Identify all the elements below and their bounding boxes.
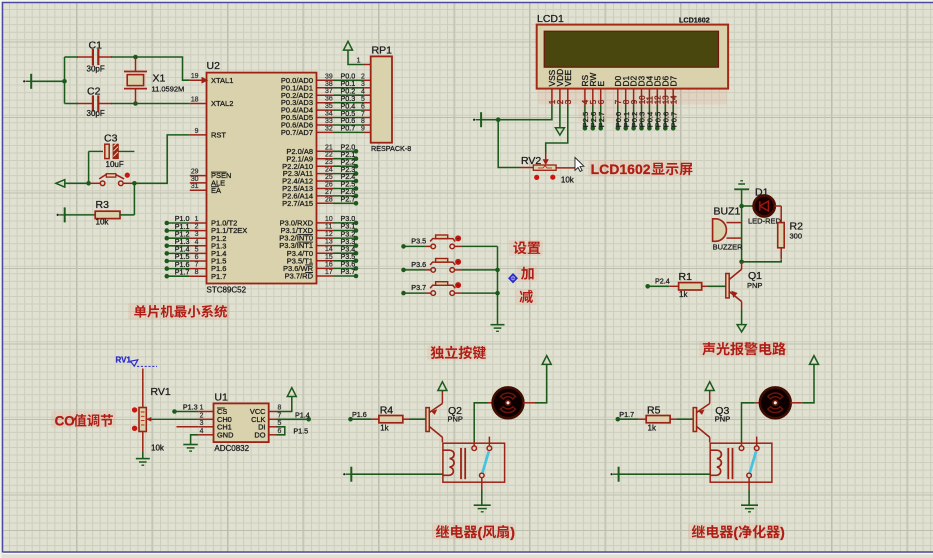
svg-text:RST: RST: [211, 131, 226, 140]
svg-text:4: 4: [195, 239, 199, 246]
svg-text:1: 1: [200, 405, 204, 412]
svg-text:7: 7: [195, 262, 199, 269]
svg-text:21: 21: [325, 144, 333, 151]
svg-text:P1.7: P1.7: [175, 267, 190, 276]
svg-text:2: 2: [200, 412, 204, 419]
svg-text:LCD1602: LCD1602: [591, 161, 651, 177]
svg-text:32: 32: [325, 125, 333, 132]
svg-text:30pF: 30pF: [87, 65, 105, 74]
svg-text:14: 14: [325, 246, 333, 253]
svg-text:6: 6: [195, 254, 199, 261]
svg-text:1k: 1k: [648, 424, 657, 433]
svg-text:LCD1: LCD1: [537, 13, 564, 25]
svg-text:P3.5: P3.5: [411, 236, 426, 245]
svg-text:3: 3: [361, 81, 365, 88]
svg-text:11.0592M: 11.0592M: [152, 85, 185, 94]
svg-text:): ): [510, 524, 515, 540]
svg-text:8: 8: [361, 118, 365, 125]
svg-text:3: 3: [200, 420, 204, 427]
svg-text:16: 16: [325, 261, 333, 268]
svg-text:28: 28: [325, 196, 333, 203]
svg-text:LCD1602: LCD1602: [679, 16, 710, 25]
svg-text:P1.7: P1.7: [619, 410, 634, 419]
svg-text:17: 17: [325, 269, 333, 276]
svg-text:39: 39: [325, 73, 333, 80]
svg-text:PNP: PNP: [448, 414, 463, 423]
svg-text:30pF: 30pF: [87, 109, 105, 118]
svg-text:BUZ1: BUZ1: [714, 206, 741, 218]
svg-text:3: 3: [195, 231, 199, 238]
svg-text:DO: DO: [254, 430, 265, 439]
svg-text:36: 36: [325, 96, 333, 103]
svg-text:P0.7/AD7: P0.7/AD7: [281, 128, 313, 137]
svg-text:X1: X1: [153, 73, 166, 85]
svg-text:P2.7: P2.7: [341, 195, 356, 204]
svg-text:13: 13: [325, 239, 333, 246]
svg-text:ADC0832: ADC0832: [214, 444, 249, 453]
svg-text:37: 37: [325, 88, 333, 95]
svg-text:P2.4: P2.4: [655, 277, 670, 286]
svg-text:9: 9: [361, 126, 365, 133]
svg-text:14: 14: [670, 95, 679, 104]
svg-text:7: 7: [361, 111, 365, 118]
svg-text:31: 31: [191, 183, 199, 190]
svg-text:6: 6: [278, 428, 282, 435]
svg-text:P1.3: P1.3: [183, 403, 198, 412]
svg-text:10k: 10k: [96, 218, 110, 227]
svg-text:6: 6: [597, 99, 606, 104]
svg-text:23: 23: [325, 159, 333, 166]
svg-text:1k: 1k: [679, 290, 688, 299]
svg-text:LED-RED: LED-RED: [748, 217, 782, 226]
svg-text:25: 25: [325, 174, 333, 181]
svg-text:10uF: 10uF: [106, 160, 124, 169]
svg-text:P2.7: P2.7: [597, 112, 606, 127]
svg-text:5: 5: [195, 246, 199, 253]
svg-text:P1.4: P1.4: [295, 411, 310, 420]
svg-text:RV2: RV2: [521, 155, 541, 167]
svg-text:RESPACK-8: RESPACK-8: [371, 144, 411, 153]
svg-text:XTAL1: XTAL1: [211, 76, 233, 85]
svg-text:27: 27: [325, 189, 333, 196]
svg-text:BUZZER: BUZZER: [713, 243, 744, 252]
svg-text:P3.7: P3.7: [341, 267, 356, 276]
svg-text:CO: CO: [55, 413, 75, 428]
svg-text:(: (: [478, 524, 483, 540]
svg-text:15: 15: [325, 254, 333, 261]
svg-text:P1.6: P1.6: [352, 410, 367, 419]
svg-text:35: 35: [325, 103, 333, 110]
svg-text:D1: D1: [755, 187, 769, 199]
svg-text:PNP: PNP: [747, 281, 762, 290]
svg-text:2: 2: [195, 224, 199, 231]
svg-text:U1: U1: [214, 392, 228, 404]
svg-text:34: 34: [325, 111, 333, 118]
svg-text:P0.7: P0.7: [669, 112, 678, 127]
svg-text:7: 7: [278, 412, 282, 419]
svg-text:12: 12: [325, 231, 333, 238]
svg-text:STC89C52: STC89C52: [207, 286, 247, 295]
svg-text:4: 4: [200, 428, 204, 435]
svg-text:18: 18: [191, 97, 199, 104]
svg-text:P3.6: P3.6: [411, 260, 426, 269]
svg-text:PNP: PNP: [715, 414, 730, 423]
svg-text:C2: C2: [87, 86, 101, 98]
svg-text:P1.5: P1.5: [293, 427, 308, 436]
svg-text:R1: R1: [679, 271, 693, 283]
svg-text:P1.7: P1.7: [211, 272, 226, 281]
svg-text:R3: R3: [96, 199, 110, 211]
svg-text:10k: 10k: [151, 444, 165, 453]
svg-text:10: 10: [325, 216, 333, 223]
svg-text:5: 5: [361, 96, 365, 103]
svg-text:(: (: [733, 524, 738, 540]
svg-text:C3: C3: [104, 133, 118, 145]
svg-text:P3.7: P3.7: [411, 283, 426, 292]
svg-text:9: 9: [195, 128, 199, 135]
svg-text:11: 11: [325, 224, 332, 231]
svg-text:GND: GND: [217, 430, 233, 439]
svg-text:38: 38: [325, 81, 333, 88]
svg-text:1: 1: [357, 58, 361, 65]
svg-text:1: 1: [195, 216, 199, 223]
svg-text:E: E: [596, 81, 606, 87]
svg-text:D7: D7: [668, 75, 678, 86]
svg-text:10k: 10k: [561, 176, 575, 185]
svg-text:26: 26: [325, 182, 333, 189]
svg-text:33: 33: [325, 118, 333, 125]
svg-text:VEE: VEE: [563, 69, 573, 86]
svg-text:2: 2: [361, 74, 365, 81]
svg-text:8: 8: [278, 405, 282, 412]
svg-text:8: 8: [195, 269, 199, 276]
svg-text:XTAL2: XTAL2: [211, 99, 233, 108]
svg-text:30: 30: [191, 176, 199, 183]
svg-text:U2: U2: [207, 60, 221, 72]
svg-text:RV1: RV1: [151, 386, 171, 398]
svg-text:RV1: RV1: [116, 356, 132, 365]
svg-text:1k: 1k: [380, 424, 389, 433]
svg-text:300: 300: [790, 232, 803, 241]
svg-text:6: 6: [361, 103, 365, 110]
svg-text:29: 29: [191, 169, 199, 176]
svg-text:P0.7: P0.7: [341, 124, 356, 133]
svg-text:19: 19: [191, 73, 199, 80]
svg-text:): ): [780, 524, 785, 540]
svg-text:P2.7/A15: P2.7/A15: [282, 199, 313, 208]
svg-text:24: 24: [325, 167, 333, 174]
svg-text:22: 22: [325, 152, 333, 159]
svg-text:3: 3: [564, 99, 573, 104]
svg-text:5: 5: [278, 420, 282, 427]
svg-text:C1: C1: [89, 40, 103, 52]
svg-text:RP1: RP1: [372, 45, 393, 57]
svg-text:4: 4: [361, 88, 365, 95]
